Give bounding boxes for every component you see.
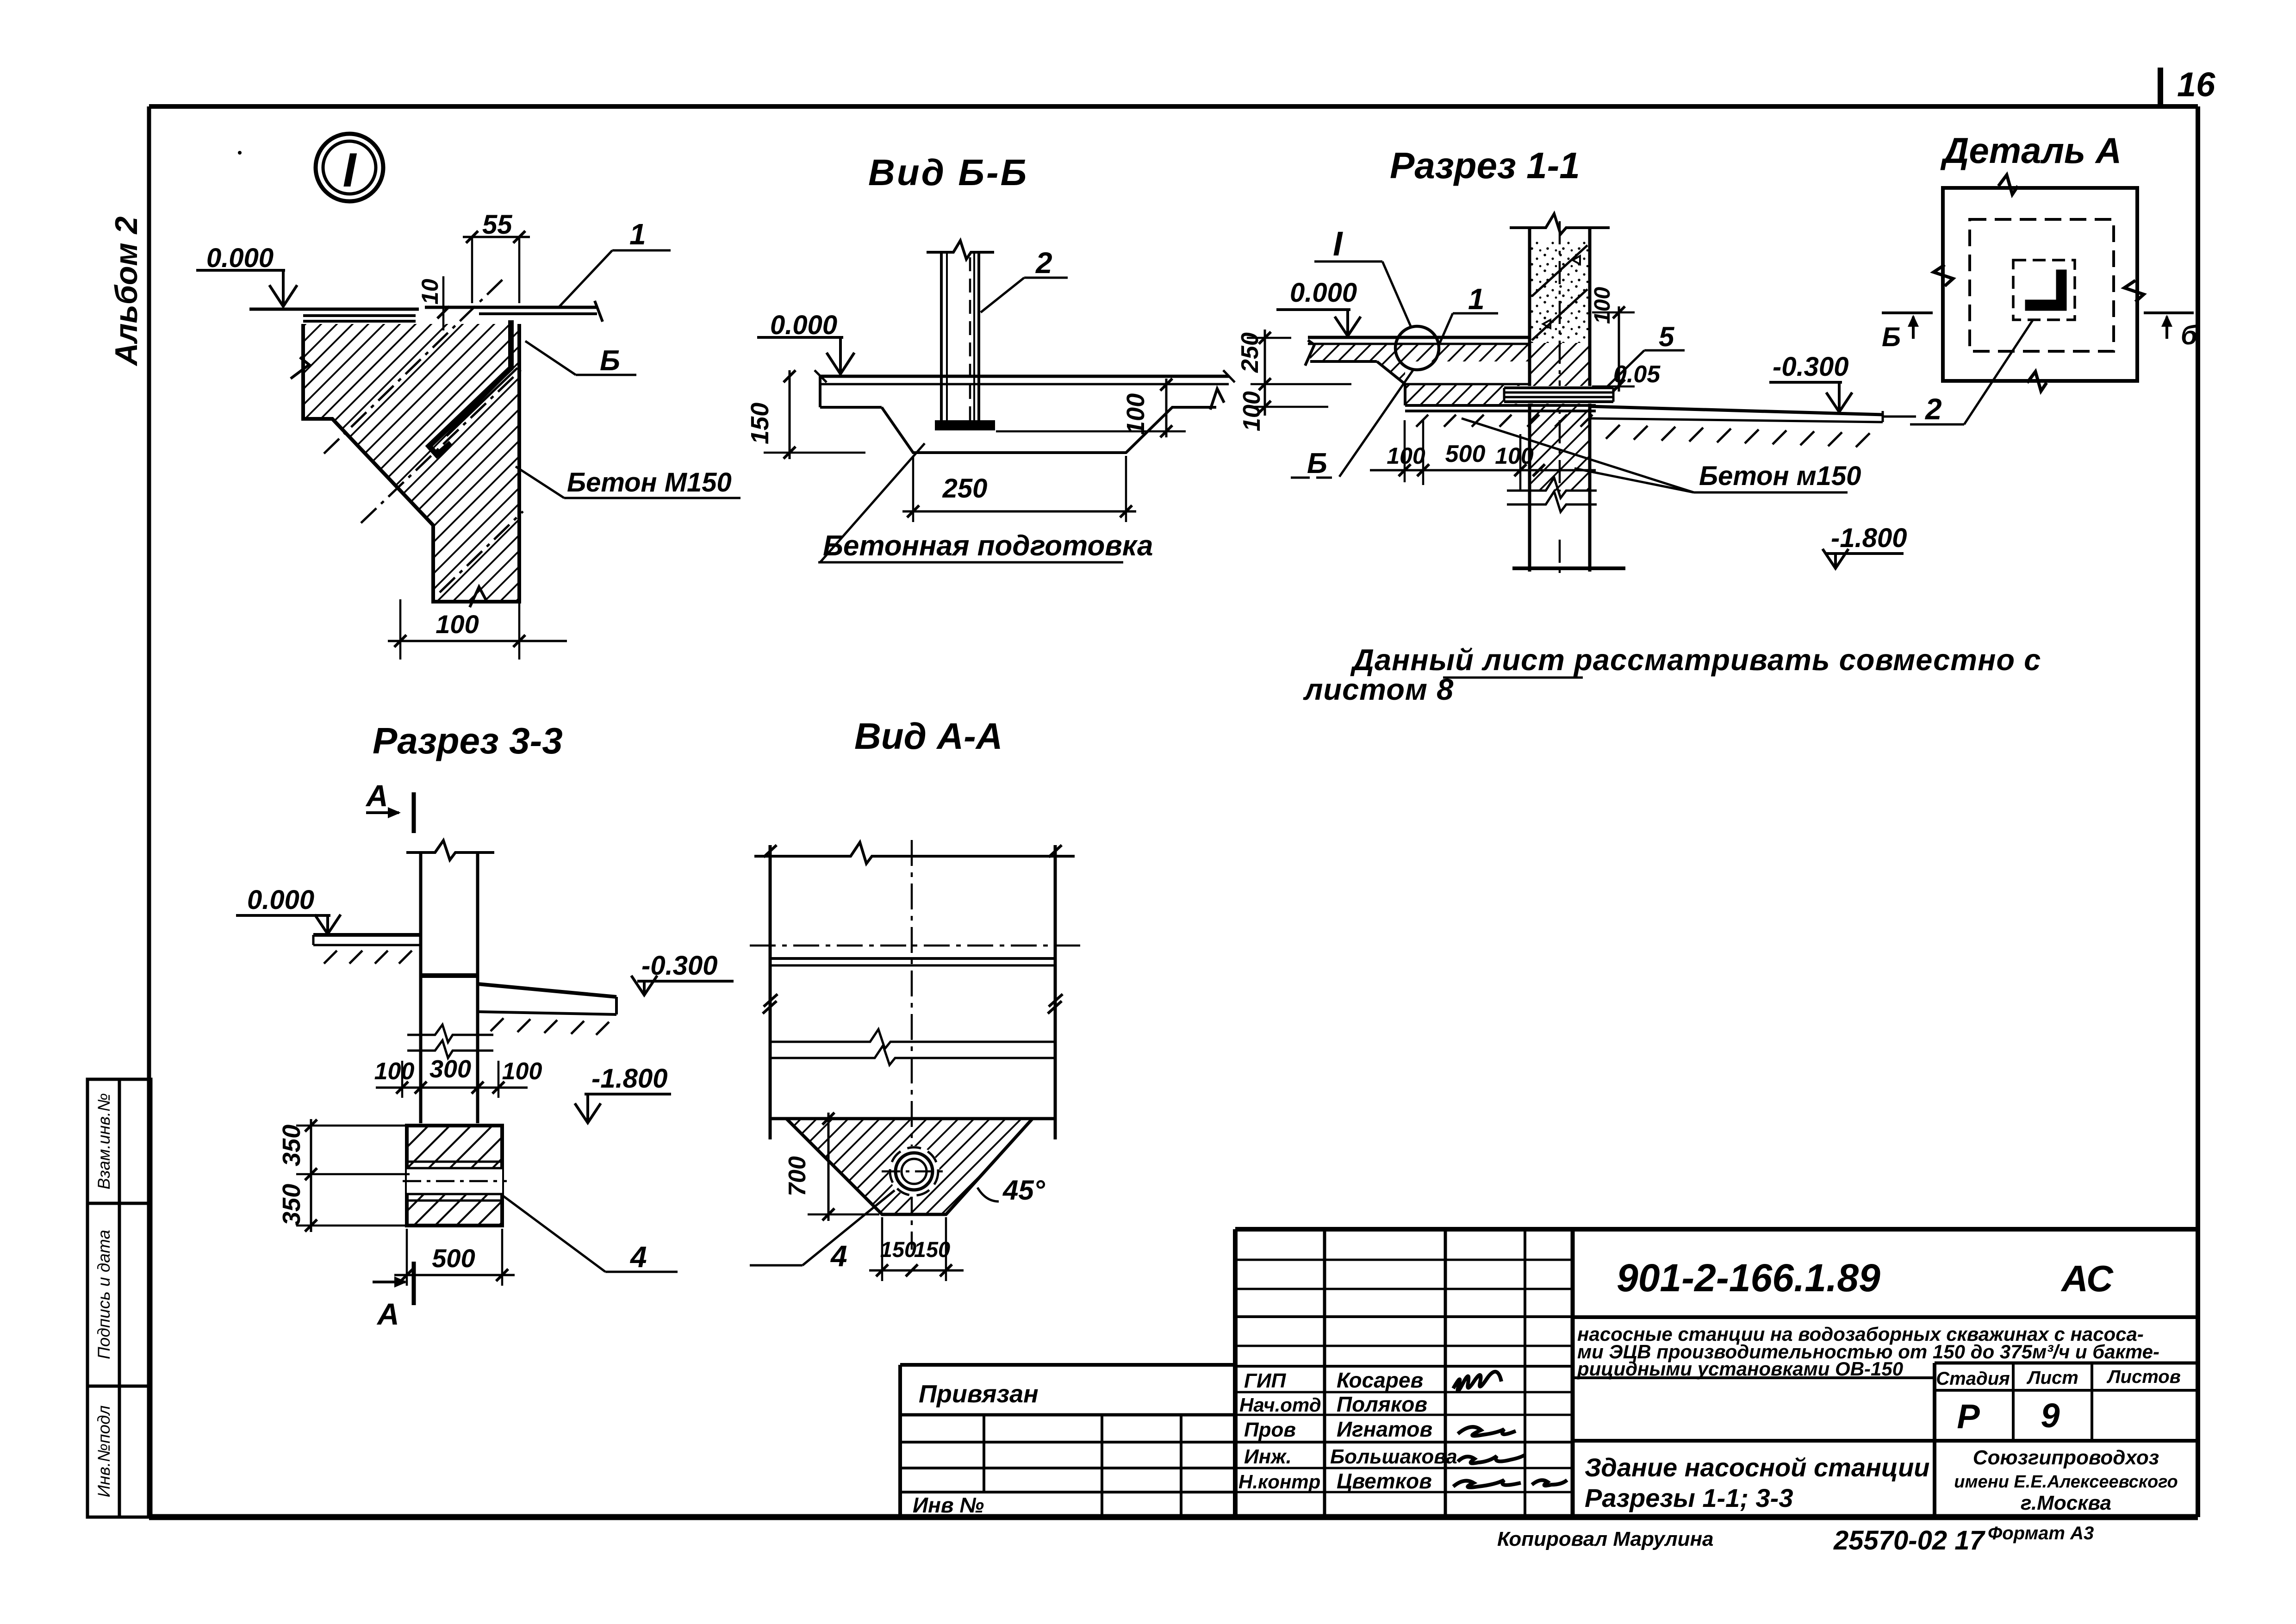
svg-text:Инв №: Инв № bbox=[913, 1493, 984, 1517]
svg-text:55: 55 bbox=[482, 210, 512, 240]
svg-text:100: 100 bbox=[1387, 443, 1425, 469]
svg-text:г.Москва: г.Москва bbox=[2021, 1492, 2111, 1514]
svg-text:100: 100 bbox=[1122, 393, 1150, 435]
svg-text:300: 300 bbox=[429, 1055, 471, 1083]
svg-text:9: 9 bbox=[2041, 1396, 2060, 1435]
svg-text:Формат А3: Формат А3 bbox=[1988, 1523, 2094, 1543]
svg-text:150: 150 bbox=[746, 403, 774, 444]
svg-text:Данный лист рассматривать совм: Данный лист рассматривать совместно с bbox=[1350, 643, 2041, 677]
svg-text:100: 100 bbox=[1238, 391, 1265, 431]
svg-text:Деталь А: Деталь А bbox=[1940, 130, 2122, 171]
svg-text:350: 350 bbox=[278, 1125, 305, 1166]
svg-text:рицидными установками ОВ-150: рицидными установками ОВ-150 bbox=[1577, 1358, 1903, 1380]
svg-text:I: I bbox=[1333, 224, 1343, 263]
svg-text:0.05: 0.05 bbox=[1613, 361, 1661, 388]
svg-text:0.000: 0.000 bbox=[770, 310, 837, 340]
svg-text:500: 500 bbox=[1445, 441, 1486, 467]
svg-text:листом 8: листом 8 bbox=[1303, 672, 1454, 706]
svg-text:100: 100 bbox=[502, 1058, 542, 1085]
svg-text:100: 100 bbox=[1590, 287, 1615, 324]
svg-text:Б: Б bbox=[1307, 448, 1327, 479]
svg-text:Инж.: Инж. bbox=[1244, 1445, 1292, 1468]
svg-text:Пров: Пров bbox=[1244, 1419, 1296, 1441]
svg-text:250: 250 bbox=[942, 473, 988, 504]
svg-text:16: 16 bbox=[2177, 65, 2215, 104]
svg-text:4: 4 bbox=[629, 1240, 647, 1274]
svg-text:Разрез 1-1: Разрез 1-1 bbox=[1390, 145, 1580, 186]
svg-text:0.000: 0.000 bbox=[247, 885, 314, 915]
svg-text:Лист: Лист bbox=[2026, 1368, 2078, 1388]
svg-text:Б: Б bbox=[1882, 322, 1901, 352]
svg-text:Вид Б-Б: Вид Б-Б bbox=[868, 152, 1028, 193]
svg-text:Взам.инв.№: Взам.инв.№ bbox=[94, 1093, 113, 1189]
svg-text:Здание насосной станции: Здание насосной станции bbox=[1585, 1453, 1930, 1482]
svg-text:100: 100 bbox=[1495, 443, 1534, 469]
svg-text:25570-02 17: 25570-02 17 bbox=[1833, 1525, 1985, 1556]
svg-text:Бетон м150: Бетон м150 bbox=[1699, 461, 1861, 491]
svg-text:А: А bbox=[365, 778, 388, 813]
svg-text:700: 700 bbox=[784, 1156, 811, 1196]
svg-text:100: 100 bbox=[374, 1058, 415, 1085]
svg-text:4: 4 bbox=[830, 1239, 847, 1273]
svg-text:I: I bbox=[343, 143, 357, 197]
svg-text:Цветков: Цветков bbox=[1337, 1469, 1432, 1493]
svg-text:Игнатов: Игнатов bbox=[1337, 1417, 1432, 1441]
svg-text:Альбом 2: Альбом 2 bbox=[109, 216, 144, 367]
svg-text:Большакова: Большакова bbox=[1330, 1445, 1457, 1468]
svg-text:-0.300: -0.300 bbox=[641, 951, 717, 981]
svg-text:Стадия: Стадия bbox=[1936, 1369, 2010, 1389]
svg-text:Инв.№подл: Инв.№подл bbox=[94, 1405, 113, 1497]
svg-text:150: 150 bbox=[914, 1237, 950, 1262]
svg-text:ГИП: ГИП bbox=[1244, 1369, 1287, 1392]
svg-text:Копировал Марулина: Копировал Марулина bbox=[1497, 1528, 1714, 1550]
svg-text:100: 100 bbox=[436, 610, 479, 639]
svg-text:901-2-166.1.89: 901-2-166.1.89 bbox=[1617, 1256, 1880, 1300]
svg-text:АС: АС bbox=[2060, 1258, 2114, 1299]
svg-text:Союзгипроводхоз: Союзгипроводхоз bbox=[1973, 1446, 2159, 1469]
svg-text:Косарев: Косарев bbox=[1337, 1368, 1423, 1392]
svg-text:-1.800: -1.800 bbox=[591, 1064, 667, 1094]
svg-text:Подпись и дата: Подпись и дата bbox=[94, 1230, 113, 1359]
svg-text:350: 350 bbox=[278, 1184, 305, 1226]
svg-text:250: 250 bbox=[1237, 332, 1263, 373]
svg-text:Н.контр: Н.контр bbox=[1238, 1471, 1320, 1493]
svg-text:Бетон М150: Бетон М150 bbox=[567, 467, 732, 498]
svg-text:0.000: 0.000 bbox=[206, 243, 274, 273]
svg-text:Разрезы 1-1; 3-3: Разрезы 1-1; 3-3 bbox=[1585, 1483, 1793, 1512]
svg-text:Бетонная подготовка: Бетонная подготовка bbox=[823, 530, 1153, 562]
svg-text:Вид А-А: Вид А-А bbox=[854, 716, 1003, 757]
svg-text:Нач.отд: Нач.отд bbox=[1239, 1394, 1321, 1416]
svg-text:500: 500 bbox=[432, 1244, 475, 1273]
svg-text:Привязан: Привязан bbox=[919, 1380, 1039, 1408]
svg-text:0.000: 0.000 bbox=[1290, 278, 1357, 308]
svg-text:2: 2 bbox=[1925, 392, 1942, 426]
svg-text:б: б bbox=[2181, 320, 2198, 350]
svg-text:2: 2 bbox=[1035, 246, 1052, 280]
svg-text:45°: 45° bbox=[1002, 1175, 1045, 1206]
svg-text:имени Е.Е.Алексеевского: имени Е.Е.Алексеевского bbox=[1954, 1472, 2178, 1492]
svg-text:10: 10 bbox=[417, 279, 443, 305]
svg-text:Поляков: Поляков bbox=[1337, 1392, 1427, 1416]
svg-text:1: 1 bbox=[629, 218, 646, 251]
svg-text:А: А bbox=[376, 1297, 399, 1331]
svg-text:-0.300: -0.300 bbox=[1773, 352, 1848, 382]
svg-text:5: 5 bbox=[1659, 321, 1675, 352]
svg-text:Листов: Листов bbox=[2106, 1367, 2181, 1387]
svg-text:150: 150 bbox=[880, 1237, 916, 1262]
svg-text:-1.800: -1.800 bbox=[1831, 523, 1907, 553]
svg-text:1: 1 bbox=[1468, 282, 1485, 316]
svg-text:Р: Р bbox=[1957, 1397, 1980, 1436]
svg-text:Б: Б bbox=[600, 345, 620, 377]
svg-text:Разрез 3-3: Разрез 3-3 bbox=[373, 720, 563, 761]
